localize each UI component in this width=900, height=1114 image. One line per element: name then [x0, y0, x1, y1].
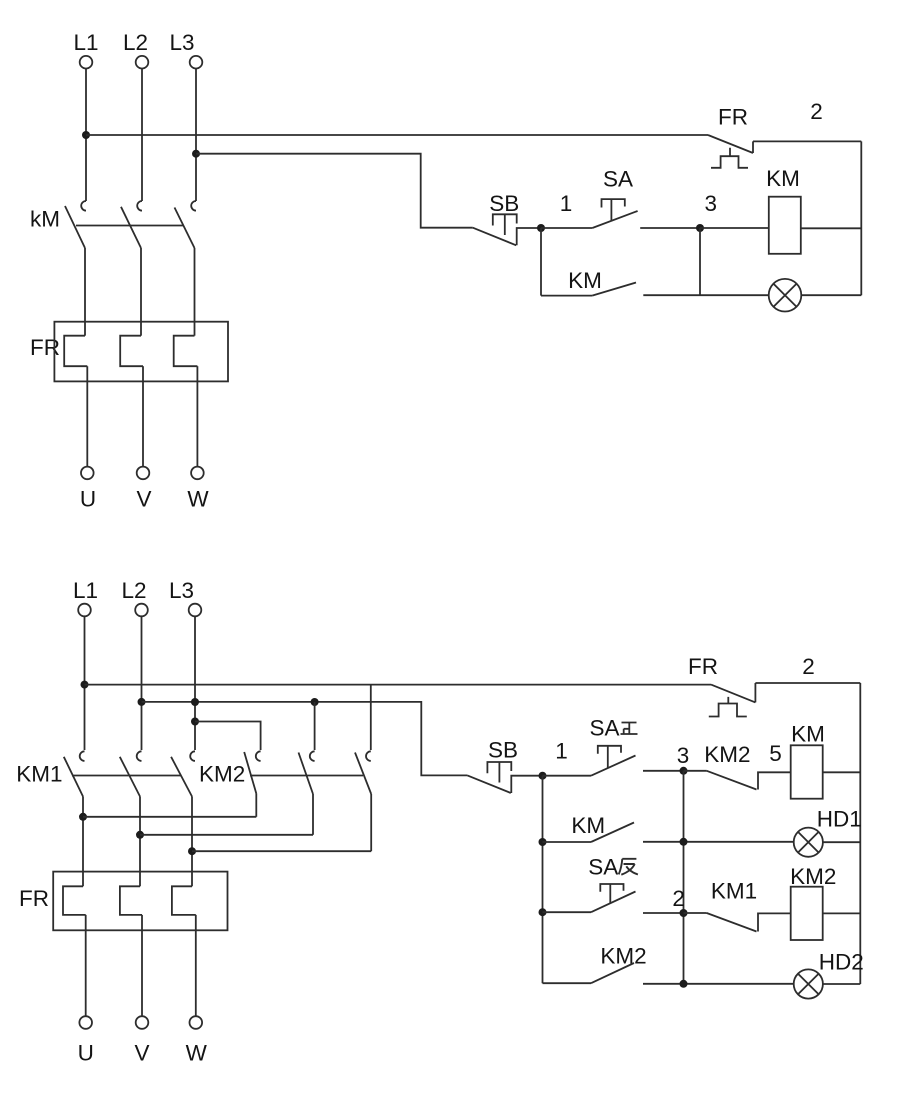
node HD2 branch	[680, 980, 688, 988]
KM aux NO blade bottom	[591, 823, 634, 843]
svg-text:L3: L3	[169, 30, 194, 55]
terminal L3	[190, 56, 203, 69]
svg-text:SA: SA	[603, 167, 633, 192]
svg-text:HD1: HD1	[817, 807, 862, 832]
svg-text:KM2: KM2	[790, 864, 836, 889]
svg-text:SA: SA	[588, 855, 618, 880]
wire KM2 coil to rail	[823, 912, 861, 914]
terminal L1	[80, 56, 93, 69]
SB pushbutton actuator bottom	[487, 762, 511, 783]
terminal U bottom	[79, 1016, 92, 1029]
wire KM2 pole2 down	[312, 794, 314, 835]
node 1 top	[537, 224, 545, 232]
SB pushbutton actuator top	[493, 214, 517, 235]
KM1 mechanical linkage	[72, 775, 181, 777]
SA-rev NO blade	[591, 892, 636, 913]
lamp top	[769, 279, 802, 312]
terminal L2 bottom	[135, 604, 148, 617]
svg-text:2: 2	[810, 99, 823, 124]
node W-join	[188, 847, 196, 855]
SA-fwd pushbutton actuator	[598, 746, 621, 768]
svg-text:1: 1	[560, 191, 573, 216]
node L3 junction	[192, 150, 200, 158]
svg-text:SA: SA	[590, 716, 620, 741]
wire KM aux to lamp HD1	[643, 841, 794, 843]
svg-text:2: 2	[672, 886, 685, 911]
KM2 pole3 fixed contact	[366, 751, 371, 761]
svg-text:KM: KM	[791, 721, 825, 746]
FR NC contact blade bottom	[711, 683, 755, 702]
terminal W	[191, 467, 204, 480]
wire HD2 to rail	[823, 983, 860, 985]
svg-text:L2: L2	[123, 30, 148, 55]
node L3 row2 junction	[191, 698, 199, 706]
wire node3 to KM coil	[700, 227, 769, 229]
KM1 pole1 blade	[64, 757, 83, 797]
wire pole3 to FR	[194, 248, 196, 336]
wire heater3 to W bottom	[195, 915, 197, 1016]
svg-text:L3: L3	[169, 578, 194, 603]
svg-text:FR: FR	[688, 654, 718, 679]
FR heater element 2	[120, 336, 143, 367]
wire pole1 to FR	[84, 248, 86, 336]
BOTTOM-DIAGRAM	[16, 578, 864, 1066]
KM2 coil	[791, 887, 823, 940]
KM1 pole3 fixed contact	[190, 751, 195, 761]
KM2 pole1 blade	[244, 752, 256, 794]
lamp HD1	[794, 828, 823, 857]
wire pole2 to FR	[140, 248, 142, 336]
svg-text:V: V	[136, 487, 151, 512]
svg-text:KM2: KM2	[704, 742, 750, 767]
svg-text:L2: L2	[121, 578, 146, 603]
node HD1 branch	[680, 838, 688, 846]
svg-text:SB: SB	[489, 191, 519, 216]
node L1 junction bottom	[81, 681, 89, 689]
wire KM2 pole1 down	[255, 794, 257, 817]
KM1 pole2 blade	[120, 757, 140, 797]
FR heater element 3	[174, 336, 198, 367]
svg-text:W: W	[186, 1041, 208, 1066]
SA NO contact blade top	[592, 211, 637, 228]
svg-text:FR: FR	[30, 335, 60, 360]
svg-text:KM: KM	[571, 813, 605, 838]
wire L1 vertical	[85, 69, 87, 201]
node 1 bottom	[539, 772, 547, 780]
wire FR to right rail bottom	[755, 682, 860, 684]
svg-text:KM1: KM1	[711, 879, 757, 904]
wire heater3 to W	[196, 366, 198, 466]
node L1 junction	[82, 131, 90, 139]
KM2 pole3 blade	[355, 753, 371, 795]
svg-text:KM2: KM2	[600, 944, 646, 969]
wire control feed lower	[196, 154, 473, 228]
wire L1 vertical bottom	[84, 616, 86, 750]
wire node1 to SA-fwd	[543, 775, 592, 777]
SB NC contact bottom	[467, 775, 542, 793]
node KM2 pole2 feed junction	[311, 698, 319, 706]
wire row2 L2 feed	[142, 702, 468, 776]
KM coil bottom	[791, 745, 823, 798]
wire SA-rev to node2	[643, 912, 684, 914]
wire L2 vertical bottom	[141, 616, 143, 750]
FR thermal actuator bottom	[709, 697, 747, 717]
wire HD1 to rail	[823, 841, 860, 843]
KM2 pole2 fixed contact	[310, 751, 315, 761]
wire KM2 aux to lamp HD2	[643, 983, 794, 985]
contactor kM pole3 blade	[175, 208, 195, 249]
svg-text:3: 3	[705, 191, 718, 216]
svg-text:SB: SB	[488, 738, 518, 763]
FR heater element 1 bottom	[63, 886, 86, 915]
terminal L3 bottom	[189, 604, 202, 617]
svg-text:2: 2	[802, 654, 815, 679]
node 3 top	[696, 224, 704, 232]
wire KM2 pole3 down	[370, 794, 372, 851]
svg-text:FR: FR	[718, 105, 748, 130]
terminal U	[81, 467, 94, 480]
KM2 pole1 fixed contact	[256, 751, 261, 761]
wire to KM aux	[541, 295, 592, 297]
wire KM coil to rail bottom	[823, 771, 861, 773]
KM1 pole3 blade	[171, 757, 192, 797]
wire to KM aux bottom	[543, 841, 592, 843]
right rail top diagram	[860, 141, 862, 295]
KM2 pole2 blade	[299, 753, 314, 795]
wire SA-fwd to node3	[643, 770, 684, 772]
wire KM1 pole3 down	[191, 797, 193, 887]
KM1 pole1 fixed contact	[80, 751, 85, 761]
wire node3 down branch	[699, 228, 701, 295]
KM coil top	[769, 197, 801, 254]
FR heater element 2 bottom	[120, 886, 142, 915]
wire self-hold branch	[540, 228, 542, 296]
wire lamp to rail top	[801, 294, 861, 296]
node V-join	[136, 831, 144, 839]
right rail bottom diagram	[859, 683, 861, 984]
contactor kM pole2 fixed contact	[137, 201, 142, 211]
wire KM1 pole1 down	[82, 797, 84, 887]
wire L3 vertical	[195, 69, 197, 201]
svg-text:5: 5	[769, 741, 782, 766]
SA-fwd NO blade	[591, 756, 636, 776]
svg-text:kM: kM	[30, 207, 60, 232]
column node3 down	[683, 771, 685, 984]
thermal relay FR box bottom	[53, 872, 227, 931]
svg-text:U: U	[80, 487, 96, 512]
left column bottom control	[542, 776, 544, 984]
glyph zheng	[621, 723, 638, 735]
wire node to SA-rev	[543, 911, 592, 913]
wire node1 to SA	[541, 227, 592, 229]
KM2 mechanical linkage	[250, 775, 363, 777]
KM1 pole2 fixed contact	[137, 751, 142, 761]
FR thermal actuator top	[711, 148, 748, 168]
thermal relay FR box	[54, 322, 228, 382]
FR heater element 3 bottom	[172, 886, 196, 915]
node L2 junction	[138, 698, 146, 706]
node 3 bottom	[680, 767, 688, 775]
KM aux NO blade top	[592, 283, 636, 296]
wire L3 vertical bottom	[194, 616, 196, 750]
contactor kM pole1 fixed contact	[81, 201, 86, 211]
wire to KM2 aux	[543, 982, 592, 984]
terminal L2	[136, 56, 149, 69]
SA-rev pushbutton actuator	[600, 884, 623, 904]
svg-text:U: U	[78, 1041, 94, 1066]
wire KM1 pole2 down	[139, 797, 141, 887]
wire KM2 pole3 feed	[370, 685, 372, 750]
node SA-rev row	[539, 908, 547, 916]
wire heater1 to U bottom	[85, 915, 87, 1016]
wire control feed upper	[86, 134, 708, 136]
wire V-join row	[140, 834, 313, 836]
terminal V bottom	[136, 1016, 149, 1029]
wire row1 L1 feed	[85, 684, 712, 686]
FR NC contact blade top	[708, 135, 753, 153]
svg-text:1: 1	[555, 739, 568, 764]
contactor kM pole3 fixed contact	[191, 201, 196, 211]
contactor kM pole2 blade	[121, 207, 141, 248]
SB NC contact top	[473, 228, 541, 246]
KM1 NC interlock contact	[684, 913, 791, 932]
svg-text:KM: KM	[568, 268, 602, 293]
SA pushbutton actuator top	[602, 199, 625, 220]
svg-text:3: 3	[677, 743, 690, 768]
svg-text:L1: L1	[73, 30, 98, 55]
wire heater1 to U	[86, 366, 88, 466]
wire heater2 to V bottom	[141, 915, 143, 1016]
svg-text:FR: FR	[19, 886, 49, 911]
svg-text:KM: KM	[766, 166, 800, 191]
wire row3 L3 to KM2 pole1	[195, 722, 261, 751]
svg-text:W: W	[187, 487, 209, 512]
kM mechanical linkage	[76, 225, 184, 227]
svg-text:KM1: KM1	[16, 761, 62, 786]
FR heater element 1	[64, 336, 87, 367]
svg-text:V: V	[134, 1041, 149, 1066]
wire U-join row	[83, 816, 256, 818]
KM2 aux NO blade	[591, 963, 634, 983]
wire W-join row	[192, 850, 371, 852]
terminal V	[137, 467, 150, 480]
wire heater2 to V	[142, 366, 144, 466]
terminal W bottom	[190, 1016, 203, 1029]
KM2 NC interlock contact	[684, 771, 791, 790]
wire L2 vertical	[141, 69, 143, 201]
lamp HD2	[794, 969, 823, 998]
svg-text:KM2: KM2	[199, 761, 245, 786]
glyph fan	[619, 859, 638, 875]
wire KM2 pole2 feed	[314, 702, 316, 750]
svg-text:HD2: HD2	[819, 949, 864, 974]
svg-text:L1: L1	[73, 578, 98, 603]
contactor kM pole1 blade	[65, 206, 85, 248]
node 2 bottom	[680, 909, 688, 917]
wire KM aux to lamp	[643, 294, 768, 296]
terminal L1 bottom	[78, 604, 91, 617]
node L3 row3 junction	[191, 718, 199, 726]
wire SA to node3	[640, 227, 700, 229]
wire KM coil to rail	[801, 227, 862, 229]
node U-join	[79, 813, 87, 821]
node self-hold KM	[539, 838, 547, 846]
wire FR to right rail top	[753, 140, 861, 142]
